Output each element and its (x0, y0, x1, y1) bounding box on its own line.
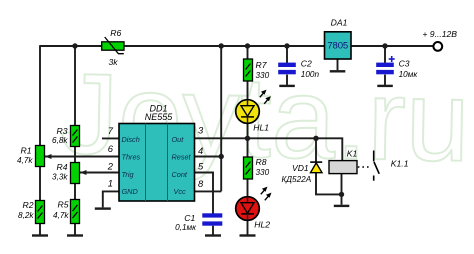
svg-text:DA1: DA1 (331, 17, 348, 27)
ground R5 (67, 234, 83, 236)
svg-text:КД522А: КД522А (281, 175, 311, 184)
svg-text:R6: R6 (110, 28, 121, 38)
svg-text:6,8k: 6,8k (52, 136, 68, 145)
relay coil K1 (329, 149, 358, 174)
diode VD1 КД522А (281, 162, 322, 184)
capacitor C3 (376, 56, 418, 79)
svg-text:R2: R2 (23, 200, 34, 210)
svg-text:C1: C1 (184, 213, 195, 223)
wire R3 branch top (74, 46, 76, 126)
svg-text:R5: R5 (58, 200, 69, 210)
junction dot VD1 out (313, 136, 318, 141)
ground C3 (377, 85, 393, 87)
junction dot Reset (219, 154, 224, 159)
wire C1 to ground (212, 226, 214, 235)
svg-text:330: 330 (256, 71, 270, 80)
svg-text:3,3k: 3,3k (52, 173, 68, 182)
IC DD1 NE555 (119, 103, 195, 201)
wire R4 to R5 (74, 184, 76, 200)
LED HL1 (236, 90, 271, 133)
wire +V top rail (40, 45, 433, 47)
wire Out line to VD1 cathode (315, 138, 317, 162)
svg-text:3: 3 (198, 125, 204, 136)
svg-text:K1: K1 (347, 149, 358, 159)
svg-text:0,1мк: 0,1мк (175, 223, 197, 232)
resistor R2 (18, 200, 44, 224)
svg-text:7805: 7805 (327, 41, 348, 52)
wire C3 to ground (384, 75, 386, 85)
junction dot R3 branch (72, 43, 77, 48)
svg-text:R7: R7 (256, 60, 268, 70)
junction dot HL1 out (245, 136, 250, 141)
svg-text:5: 5 (198, 160, 204, 171)
svg-text:R1: R1 (21, 146, 32, 156)
svg-text:Cont: Cont (172, 170, 188, 179)
wire R1 to R2 (39, 167, 41, 201)
svg-text:4,7k: 4,7k (53, 211, 69, 220)
capacitor C2 (278, 59, 319, 79)
ground HL2 (240, 234, 256, 236)
capacitor C1 (175, 213, 222, 232)
ground pin1 (95, 207, 111, 209)
svg-text:2: 2 (107, 160, 114, 171)
junction dot C2 branch (284, 43, 289, 48)
svg-text:4: 4 (198, 145, 203, 156)
resistor R7 (244, 59, 270, 81)
relay contact K1.1 (358, 151, 409, 181)
ground R2 (32, 234, 48, 236)
svg-text:GND: GND (122, 187, 139, 196)
wire pin8 Vcc (195, 190, 222, 192)
svg-text:C2: C2 (301, 59, 312, 69)
wire K1 coil to ground (341, 174, 343, 205)
resistor R8 (244, 157, 270, 179)
svg-text:K1.1: K1.1 (391, 158, 409, 168)
wire rail to C2 (286, 46, 288, 64)
wire pin4 Reset (195, 156, 222, 158)
wire C2 to ground (286, 75, 288, 85)
svg-text:VD1: VD1 (292, 163, 309, 173)
svg-text:3k: 3k (109, 57, 119, 67)
wire pin1 GND to ground (103, 191, 119, 207)
svg-text:Thres: Thres (122, 153, 141, 162)
wire HL1 to Out line (247, 117, 249, 138)
svg-text:R3: R3 (57, 126, 68, 136)
junction dot coil ground (339, 192, 344, 197)
wire rail to R7 (247, 46, 249, 59)
wire pin3 Out line (195, 138, 343, 160)
wire pin7 Disch stub (102, 137, 119, 139)
wire pin2 Trig to R4 wiper (80, 172, 119, 174)
svg-text:NE555: NE555 (145, 112, 174, 122)
resistor R3 (52, 126, 79, 147)
svg-text:R8: R8 (256, 157, 267, 167)
svg-text:Reset: Reset (172, 153, 192, 162)
svg-text:100n: 100n (301, 70, 320, 79)
junction dot R7 branch (245, 43, 250, 48)
potentiometer R1 (17, 146, 51, 167)
svg-text:HL2: HL2 (254, 220, 270, 230)
svg-text:Trig: Trig (122, 170, 134, 179)
svg-text:HL1: HL1 (253, 123, 269, 133)
wire pin5 Cont to C1 (195, 173, 214, 214)
svg-text:C3: C3 (399, 59, 410, 69)
wire R7 to HL1 (247, 81, 249, 106)
wire pin6 Thres to R1 wiper (45, 156, 119, 158)
resistor R5 (53, 200, 79, 224)
wire rail to C3 (384, 46, 386, 64)
junction dot Vcc drop (219, 43, 224, 48)
wire Out line to R8 (247, 138, 249, 157)
svg-text:4,7k: 4,7k (17, 156, 33, 165)
svg-text:10мк: 10мк (399, 70, 419, 79)
wire R8 to HL2 (247, 179, 249, 204)
svg-text:Disch: Disch (122, 135, 140, 144)
junction dot C3 branch (382, 43, 387, 48)
wire DA1 to ground (337, 59, 339, 70)
regulator DA1 7805 (325, 17, 352, 59)
potentiometer R4 (52, 162, 86, 184)
wire R5 to ground (74, 224, 76, 235)
svg-text:6: 6 (108, 143, 114, 154)
svg-text:Vcc: Vcc (174, 187, 187, 196)
svg-text:1: 1 (108, 178, 113, 189)
wire HL2 to ground (247, 214, 249, 235)
wire R2 to ground (39, 224, 41, 235)
svg-text:+ 9...12В: + 9...12В (422, 29, 457, 39)
thermistor R6 (102, 28, 124, 67)
ground C1 (205, 234, 221, 236)
ground C2 (279, 85, 295, 87)
terminal +9..12V (422, 29, 457, 51)
wire R3 to R4 (74, 147, 76, 163)
wire R1 branch top (39, 45, 41, 145)
ground DA1 (330, 70, 346, 72)
svg-text:8,2k: 8,2k (18, 211, 34, 220)
svg-text:8: 8 (198, 178, 204, 189)
svg-text:R4: R4 (57, 162, 68, 172)
ground K1 coil (334, 205, 350, 207)
svg-text:7: 7 (108, 125, 114, 136)
svg-text:Out: Out (172, 135, 185, 144)
LED HL2 (236, 187, 272, 230)
svg-text:330: 330 (256, 168, 270, 177)
wire Vcc drop to pins 4 and 8 (220, 46, 222, 191)
wire VD1 anode to coil bottom (316, 173, 342, 195)
